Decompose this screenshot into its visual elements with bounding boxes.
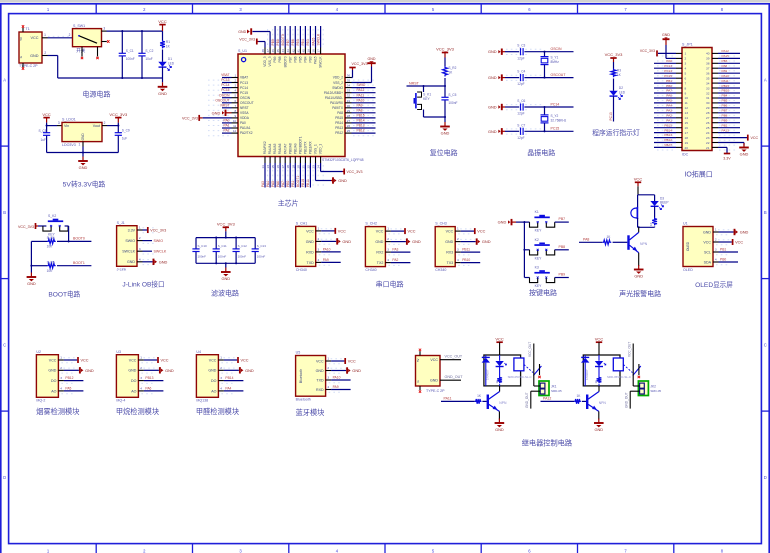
wire net PB6 [718,104,740,108]
wire bottom rail [58,77,163,79]
ground pin2 [662,33,676,59]
svg-text:GND: GND [81,133,85,141]
svg-text:OSCIN: OSCIN [219,93,230,97]
ground port [240,367,254,373]
svg-text:1: 1 [327,357,329,361]
wire net PB6 [291,26,295,48]
svg-text:VCC_3V3: VCC_3V3 [182,116,198,120]
svg-text:GND: GND [85,368,94,373]
resistor [475,399,482,404]
wire net PB10 [461,258,481,263]
switch pins [81,27,110,60]
svg-text:MQ-4: MQ-4 [116,399,125,403]
wire VCC to LDO Vin [46,123,57,127]
svg-text:PA4: PA4 [225,386,231,390]
svg-text:33: 33 [706,86,710,90]
svg-text:VBAT: VBAT [664,143,672,147]
svg-text:PA3: PA3 [261,181,265,187]
svg-text:38: 38 [312,49,316,53]
svg-text:4: 4 [327,385,329,389]
svg-text:PB15: PB15 [357,114,365,118]
svg-text:8: 8 [685,86,687,90]
wire net PB15 [718,84,740,88]
svg-text:SWCLK: SWCLK [154,250,167,254]
svg-text:VCC: VCC [209,358,217,362]
svg-text:PA3/RX2: PA3/RX2 [263,141,267,154]
svg-text:GND: GND [352,368,361,373]
svg-text:13: 13 [685,111,689,115]
wire net PB15 [654,123,676,127]
svg-text:8MHz: 8MHz [551,60,560,64]
svg-text:BOOT1: BOOT1 [296,176,300,187]
wire T1 GND to rail [48,56,58,79]
svg-text:Vout: Vout [93,124,100,128]
svg-text:U4: U4 [196,350,201,354]
svg-text:VCC: VCC [338,229,346,233]
module U5 [296,351,326,402]
ground port [80,367,94,373]
svg-text:PA7: PA7 [666,89,672,93]
wire net VBAT [221,73,231,77]
svg-text:滤波电路: 滤波电路 [211,289,239,298]
svg-text:PA12: PA12 [543,397,551,401]
push button S_K1 [414,92,432,110]
ground port [488,104,502,110]
wire net PA6 [654,94,676,98]
resistor in relay [499,367,501,377]
svg-text:GND: GND [165,368,174,373]
svg-text:PA12/USBD+: PA12/USBD+ [324,91,343,95]
wire GND_OUT [525,391,540,408]
svg-text:S_C12: S_C12 [238,244,248,248]
lead GND to cap S_C7 [502,130,505,132]
power port VCC [495,336,504,342]
svg-text:S_CH3: S_CH3 [435,222,447,226]
wire R3 to LED D2 [613,79,615,91]
svg-text:PA10: PA10 [357,98,365,102]
crystal Y2 [541,107,567,131]
svg-text:PA8: PA8 [583,238,589,242]
capacitor S_C3 [517,44,525,61]
wire resistor to base [613,241,628,243]
svg-text:29: 29 [706,106,710,110]
svg-text:PB10/TX: PB10/TX [304,141,308,155]
svg-text:PA2: PA2 [392,258,398,262]
svg-text:GND: GND [316,369,324,373]
svg-text:T1: T1 [26,27,30,31]
svg-text:OSCOUT: OSCOUT [215,98,229,102]
LED D1 [158,57,174,70]
svg-text:TXD: TXD [316,378,324,382]
svg-text:VSS_1: VSS_1 [314,144,318,154]
svg-text:PB5: PB5 [299,56,303,62]
ground [495,419,505,433]
module U3 [116,350,138,403]
svg-text:PB7: PB7 [559,217,566,221]
svg-text:GND: GND [30,54,39,58]
svg-text:OLED: OLED [686,241,690,251]
power port VCC [595,336,604,342]
IO port pin stubs and numbers [657,52,737,150]
svg-text:46: 46 [271,49,275,53]
resistor [497,377,502,384]
capacitor S_C9 [115,128,130,140]
svg-text:PA5: PA5 [666,99,672,103]
wire net PB10 [301,163,305,188]
wire to key [524,249,529,251]
wire net PA11 [352,93,376,97]
wire emitter to ground [638,253,640,266]
svg-text:VCC: VCC [735,240,743,244]
svg-text:TXD: TXD [307,261,315,265]
pin 2 Vout [102,121,107,126]
svg-text:PB9: PB9 [271,39,275,45]
T2 shield stubs [419,349,421,393]
svg-text:28: 28 [706,111,710,115]
svg-text:S_LDO1: S_LDO1 [62,118,76,122]
svg-text:12: 12 [233,129,237,133]
wire net PB4 [718,94,740,98]
power port VCC_3V3 [109,112,128,123]
svg-text:CH340: CH340 [296,268,307,272]
svg-text:TX2: TX2 [377,261,384,265]
power port VCC [42,112,51,123]
svg-text:SRD-05VDC-SL-C: SRD-05VDC-SL-C [607,375,631,379]
connector T2 TYPE-C out [416,356,446,393]
relay coil [613,358,623,371]
svg-text:PA15: PA15 [722,54,730,58]
svg-text:12pF: 12pF [517,112,524,116]
svg-text:45: 45 [276,49,280,53]
svg-text:A: A [764,77,767,82]
svg-text:PB10: PB10 [722,89,730,93]
svg-text:U2: U2 [36,350,41,354]
svg-text:1: 1 [139,226,141,230]
svg-text:B: B [764,210,767,215]
svg-text:11: 11 [685,101,688,105]
svg-text:35: 35 [706,77,710,81]
svg-text:PB14: PB14 [357,119,365,123]
push button K3 [530,266,555,289]
svg-text:GND_OUT: GND_OUT [445,375,464,379]
wire net PB9 [271,26,275,48]
svg-text:PB6: PB6 [722,104,728,108]
svg-text:IO拓展口: IO拓展口 [684,170,712,179]
capacitor [192,249,199,252]
svg-text:BOOT0: BOOT0 [281,34,285,45]
ground [158,82,168,96]
capacitor S_C11 labels [218,244,227,259]
svg-text:4: 4 [140,387,142,391]
wire JK top pin [633,385,639,387]
chip left pins [208,74,254,136]
svg-text:PC14: PC14 [240,86,248,90]
svg-text:PC13: PC13 [240,81,248,85]
svg-text:PC14: PC14 [551,102,560,106]
wire net PB8 [555,245,569,250]
power VCC_3V3 to VDDA [182,115,231,121]
svg-text:PB3: PB3 [722,59,728,63]
svg-text:PA9: PA9 [323,258,329,262]
relay unit JK1 [484,355,521,386]
svg-text:4: 4 [685,67,687,71]
svg-text:VCC: VCC [158,19,167,24]
lead GND to keys [512,221,517,223]
svg-text:蓝牙模块: 蓝牙模块 [296,408,325,417]
svg-text:GND: GND [48,369,56,373]
wire net PA3 [654,109,676,113]
resistor in relay [598,367,600,377]
wire net VBAT [654,143,676,147]
power VCC_3V3 pin1 [143,227,167,233]
wire net SWIO [352,83,376,87]
svg-text:R1: R1 [166,40,170,44]
wire to ground [225,263,227,267]
svg-text:PB0: PB0 [286,181,290,187]
svg-text:PB6: PB6 [293,56,297,62]
svg-text:K2: K2 [535,238,539,242]
svg-text:100nF: 100nF [238,255,247,259]
svg-text:S_SW1: S_SW1 [73,24,85,28]
svg-text:C: C [3,342,6,347]
chip top pins [261,29,323,68]
svg-text:PA8: PA8 [357,108,363,112]
svg-text:SRD-05: SRD-05 [551,389,562,393]
svg-text:PB12: PB12 [357,129,365,133]
svg-text:S_C10: S_C10 [198,244,208,248]
main chip U1 STM32F103C8T6 [238,49,364,162]
svg-text:TYPE-C 2P: TYPE-C 2P [426,389,445,393]
wire key column [516,221,530,277]
svg-text:GND: GND [159,259,168,264]
wire net BOOT1 [296,163,300,188]
svg-text:27: 27 [706,116,710,120]
svg-text:AO: AO [211,389,216,393]
svg-text:PC13: PC13 [609,112,613,120]
svg-text:OSCIN: OSCIN [240,96,251,100]
svg-text:GND: GND [740,230,749,235]
svg-text:PB8: PB8 [559,245,566,249]
svg-text:PB14: PB14 [225,376,233,380]
svg-text:S_C3: S_C3 [517,44,525,48]
svg-text:PB9: PB9 [722,118,728,122]
wire emitter to ground [598,411,600,419]
power VCC [391,228,416,234]
wire cap row PC14 [505,102,574,109]
svg-text:GND_OUT: GND_OUT [525,392,529,408]
power VCC pin23 [718,135,758,141]
svg-text:100nF: 100nF [218,255,227,259]
LED D3 [654,195,656,201]
capacitor S_C2 [138,49,153,61]
svg-text:PB9: PB9 [273,56,277,62]
svg-text:1: 1 [79,142,81,146]
lead GND to cap S_C4 [502,77,505,79]
svg-text:VCC: VCC [348,359,356,363]
ground to VSS_3 [238,28,270,47]
svg-text:12pF: 12pF [517,82,524,86]
capacitor [43,133,50,136]
connector S_J1 J-Link [117,221,137,272]
svg-text:3: 3 [60,376,62,380]
svg-text:S_R4: S_R4 [47,236,55,240]
svg-text:6: 6 [685,77,687,81]
svg-text:1: 1 [715,228,717,232]
svg-text:41: 41 [296,49,300,53]
svg-text:VCC_OUT: VCC_OUT [628,342,632,357]
switch S_SW1 [73,24,102,54]
svg-text:VCC: VCC [595,336,604,341]
svg-text:4: 4 [139,257,141,261]
resistor [652,218,657,226]
lead GND to cap S_C6 [502,106,505,108]
svg-text:GND: GND [634,274,643,279]
svg-text:VCC_3V3: VCC_3V3 [347,170,363,174]
svg-text:SWCLK: SWCLK [122,250,135,254]
svg-text:VCC_OUT: VCC_OUT [445,354,463,358]
svg-text:40: 40 [706,52,710,56]
svg-text:PB10: PB10 [462,258,470,262]
LED in relay [495,355,506,367]
svg-text:U1: U1 [683,222,688,226]
svg-text:PC14: PC14 [221,83,229,87]
svg-text:2: 2 [220,366,222,370]
svg-text:SDA: SDA [704,260,712,264]
svg-text:NPN: NPN [640,242,648,246]
svg-text:SWIO: SWIO [357,83,366,87]
ground port [331,177,347,183]
svg-text:GND: GND [662,33,670,37]
svg-text:PB10: PB10 [301,179,305,187]
svg-text:Vin: Vin [64,124,69,128]
capacitor [252,249,259,252]
svg-text:VBAT: VBAT [240,76,248,80]
crystal Y1 [541,52,560,78]
wire net PA4 [654,104,676,108]
svg-text:S_K1: S_K1 [423,93,431,97]
svg-text:36: 36 [706,72,710,76]
wire T1 VCC to switch [48,33,73,38]
wire net PC15 [654,74,676,78]
ground pin4 [143,261,153,263]
wire net PA7 [654,89,676,93]
svg-text:44: 44 [281,49,285,53]
transistor NPN [627,232,647,252]
svg-text:OLED: OLED [683,268,693,272]
wire cap C1 leads [121,31,123,78]
lead VCC to relay [598,342,600,355]
wire cap C2 leads [141,31,143,78]
svg-text:47: 47 [266,49,270,53]
svg-text:NRST: NRST [409,81,420,85]
svg-text:OLED显示屏: OLED显示屏 [695,281,733,289]
resistor S_R2 [443,66,457,77]
wire key to bottom node [424,110,447,119]
svg-text:PA9: PA9 [722,69,728,73]
ground port [347,367,361,373]
svg-text:PB12: PB12 [664,138,672,142]
svg-text:2: 2 [139,236,141,240]
wire net PA0 [654,59,676,63]
svg-text:VCC: VCC [161,358,169,362]
svg-text:AO: AO [131,389,136,393]
terminal JK1 [539,381,562,396]
svg-text:GND: GND [368,57,376,61]
svg-text:29: 29 [347,109,351,113]
svg-text:27: 27 [347,119,351,123]
svg-text:PB3: PB3 [309,56,313,62]
capacitor S_C5 [441,93,457,105]
LED in relay [595,355,606,367]
wire LED to rail [162,67,164,78]
wire net PA10 [331,376,351,381]
wire net PC13 [654,64,676,68]
wire net PA12 [541,397,575,402]
svg-text:D: D [3,475,6,480]
svg-text:PB11/RX: PB11/RX [309,140,313,154]
svg-text:18: 18 [685,136,689,140]
svg-text:PA3: PA3 [666,109,672,113]
svg-text:GND: GND [498,220,507,225]
lead resistor to box bottom [598,384,600,386]
wire net SWCLK [143,250,167,254]
svg-text:复位电路: 复位电路 [430,148,458,157]
svg-text:GND: GND [482,239,491,244]
wire net PA2 [654,114,676,118]
svg-text:G: G [416,380,420,382]
svg-text:PB15: PB15 [664,123,672,127]
svg-text:33: 33 [347,89,351,93]
svg-text:3: 3 [327,376,329,380]
svg-text:12pF: 12pF [517,56,524,60]
wire net PB9 [555,273,569,278]
svg-text:43: 43 [286,49,290,53]
power VCC [224,357,249,363]
wire net PB9 [718,118,740,122]
resistor [47,239,56,244]
svg-text:KEY: KEY [535,256,543,260]
svg-text:VCC: VCC [376,230,384,234]
svg-text:2: 2 [685,57,687,61]
wire net PB3 [718,59,740,63]
wire net SWCLK [316,26,320,48]
svg-text:PA2: PA2 [224,129,230,133]
svg-text:PB12: PB12 [65,376,73,380]
wire to ground port [719,231,734,233]
wire to ground [30,266,32,273]
ground [634,265,644,279]
svg-text:PA0: PA0 [240,121,246,125]
svg-text:VCC_3V3: VCC_3V3 [239,38,255,42]
svg-text:OSCOUT: OSCOUT [240,101,254,105]
wire to ground port [461,241,476,243]
wire box bottom to collector [598,386,600,392]
wire net PA9 [331,385,351,390]
wire net PB12 [352,129,376,133]
svg-text:GND: GND [488,75,497,80]
wire net BOOT0 [281,26,285,48]
capacitor S_C10 leads [195,238,197,264]
svg-text:DO: DO [131,379,137,383]
resistor [47,263,56,268]
wire net PB7 [555,217,569,222]
wire VCC column [162,31,164,40]
regulator S_LDO1 [62,118,102,147]
resistor R5 labels [47,260,55,273]
svg-text:RXD: RXD [316,388,324,392]
wire net PC13 [221,78,231,82]
capacitor S_C10 labels [198,244,208,259]
